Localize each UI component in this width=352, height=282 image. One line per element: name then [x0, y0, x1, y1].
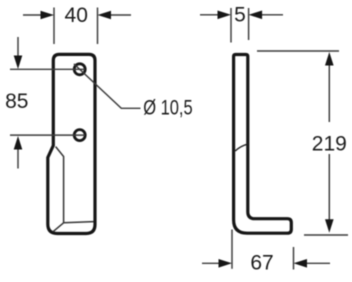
svg-text:40: 40	[65, 4, 88, 27]
svg-text:67: 67	[250, 252, 273, 275]
svg-text:219: 219	[312, 132, 347, 155]
svg-text:85: 85	[5, 90, 28, 113]
svg-text:Ø 10,5: Ø 10,5	[143, 96, 193, 119]
svg-text:5: 5	[234, 4, 246, 27]
